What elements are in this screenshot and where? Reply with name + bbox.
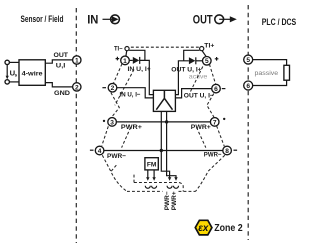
svg-text:εx: εx xyxy=(198,223,209,234)
svg-text:2: 2 xyxy=(75,84,79,91)
dashed outline 1-2 xyxy=(114,64,123,83)
svg-text:GND: GND xyxy=(54,90,70,97)
svg-text:active: active xyxy=(189,74,208,81)
svg-text:5: 5 xyxy=(246,57,250,64)
dashed diagonal long left xyxy=(115,70,134,106)
isolation amplifier block xyxy=(153,90,175,111)
junction dot PWR- xyxy=(160,149,163,152)
svg-text:3: 3 xyxy=(110,119,114,126)
svg-text:TI+: TI+ xyxy=(204,42,214,49)
device terminal 4 xyxy=(95,146,104,155)
wire D2 to terminal 5 xyxy=(196,60,203,62)
IN flow symbol xyxy=(87,13,119,27)
dashed outline 5-6 xyxy=(209,64,215,84)
rail PWR+ xyxy=(116,121,210,123)
svg-text:5: 5 xyxy=(205,58,209,65)
rail PWR- xyxy=(104,150,223,152)
svg-text:s: s xyxy=(15,73,18,78)
svg-text:U,I: U,I xyxy=(56,63,66,70)
svg-text:4-wire: 4-wire xyxy=(22,70,43,77)
svg-text:IN U, I+: IN U, I+ xyxy=(128,66,151,73)
Ex hexagon logo xyxy=(195,220,212,235)
source terminal bottom xyxy=(5,80,9,84)
test socket right xyxy=(200,47,204,51)
dashed diagonal rail right xyxy=(197,127,206,147)
svg-text:IN: IN xyxy=(87,13,98,27)
dashed spur left vertex xyxy=(111,164,117,171)
svg-text:Zone 2: Zone 2 xyxy=(214,222,243,234)
device terminal 2 xyxy=(108,83,117,92)
resistor passive load xyxy=(284,65,290,80)
wire source bottom xyxy=(9,81,19,83)
device terminal 6 xyxy=(212,84,221,93)
wire to diode D1 xyxy=(129,59,133,61)
dashed bottom outer right xyxy=(179,190,196,192)
minus sign terminal 4 xyxy=(90,149,94,151)
field terminal 2 xyxy=(73,83,81,91)
svg-text:PWR−: PWR− xyxy=(204,152,222,159)
dashed elbow right xyxy=(179,183,183,192)
svg-text:PLC / DCS: PLC / DCS xyxy=(262,16,297,27)
svg-text:OUT U, I+: OUT U, I+ xyxy=(171,66,201,73)
wire 4-wire GND to terminal 2 xyxy=(45,83,72,87)
svg-text:6: 6 xyxy=(214,86,218,93)
device terminal 7 xyxy=(210,118,219,127)
wire isolator to diode D2 xyxy=(175,61,189,95)
test socket left xyxy=(125,47,129,51)
passive load loop xyxy=(253,60,287,86)
svg-text:1: 1 xyxy=(123,58,127,65)
wire source top xyxy=(9,61,19,63)
OUT flow symbol xyxy=(193,12,237,26)
test switch blade left xyxy=(125,51,128,56)
wire D1 to isolator xyxy=(140,60,154,94)
socket cup FM right xyxy=(152,186,157,189)
wire 4-wire OUT to terminal 1 xyxy=(45,60,72,63)
plus sign terminal 5 xyxy=(215,57,219,61)
svg-text:2: 2 xyxy=(111,85,115,92)
wire PWR- from isolator xyxy=(161,111,169,177)
device terminal 3 xyxy=(108,118,117,127)
dashed outline 4 to bottom xyxy=(102,155,127,191)
FM arrow left xyxy=(147,170,149,178)
dashed outline 8 to bottom xyxy=(196,155,225,191)
socket cup PWR+ xyxy=(174,186,179,189)
dashed notch 2-3 xyxy=(111,93,119,117)
device dashed outline top edge xyxy=(131,46,199,48)
Us arrow xyxy=(6,65,8,77)
dashed riser left xyxy=(133,175,135,183)
field terminal 1 xyxy=(73,56,81,64)
svg-text:PWR+: PWR+ xyxy=(121,124,142,131)
dashed inner boundary xyxy=(134,182,179,184)
diode D1 xyxy=(133,57,140,64)
transmitter 4-wire xyxy=(19,60,45,86)
PLC terminal 5 xyxy=(244,55,253,64)
socket cup FM left xyxy=(145,186,150,189)
wire terminal 2 to isolator xyxy=(117,88,154,98)
socket cup PWR- xyxy=(167,186,172,189)
svg-text:PWR+: PWR+ xyxy=(191,124,211,131)
svg-text:7: 7 xyxy=(213,119,217,126)
separator line PLC/DCS xyxy=(247,5,249,240)
dashed bottom outer left xyxy=(127,190,163,192)
dashed diagonal rail left xyxy=(122,127,131,147)
PLC terminal 6 xyxy=(244,81,253,90)
dashed outline 3-4 xyxy=(102,126,109,145)
minus sign terminal 2 xyxy=(102,87,106,89)
diode D2 xyxy=(189,57,196,64)
svg-text:4: 4 xyxy=(98,148,102,155)
svg-text:PWR+: PWR+ xyxy=(171,191,178,210)
source terminal top xyxy=(5,60,9,64)
svg-text:passive: passive xyxy=(255,70,279,77)
dot marker terminal 7 xyxy=(223,118,225,120)
dot marker terminal 3 xyxy=(103,120,105,122)
device terminal 5 xyxy=(203,57,212,66)
svg-text:1: 1 xyxy=(75,57,79,64)
minus sign terminal 6 xyxy=(222,88,226,90)
svg-text:TI−: TI− xyxy=(114,46,123,53)
svg-text:PWR−: PWR− xyxy=(107,153,126,160)
svg-text:OUT: OUT xyxy=(193,12,213,26)
svg-text:6: 6 xyxy=(246,83,250,90)
svg-text:OUT U, I−: OUT U, I− xyxy=(184,92,214,99)
svg-text:IN U, I−: IN U, I− xyxy=(120,92,141,99)
svg-text:FM: FM xyxy=(147,161,157,168)
wire PWR+ from isolator xyxy=(167,111,176,177)
FM box xyxy=(145,158,158,170)
svg-text:8: 8 xyxy=(225,148,229,155)
FM arrow right xyxy=(153,170,155,178)
junction dot PWR+ xyxy=(165,120,168,123)
svg-text:Sensor / Field: Sensor / Field xyxy=(21,14,64,25)
svg-text:OUT: OUT xyxy=(54,52,69,59)
test switch blade right xyxy=(202,51,206,56)
minus sign terminal 8 xyxy=(234,149,238,151)
device terminal 1 xyxy=(121,56,130,65)
dashed notch 6-7 xyxy=(207,94,214,118)
dashed diagonal long right xyxy=(191,67,203,92)
dashed outline 7-8 xyxy=(217,126,225,146)
test bypass loop right xyxy=(184,50,200,61)
separator line Sensor/Field xyxy=(75,8,77,243)
device terminal 8 xyxy=(223,146,232,155)
wire isolator to terminal 6 xyxy=(175,89,211,98)
test bypass loop left xyxy=(129,50,145,60)
plus sign terminal 1 xyxy=(116,57,120,61)
